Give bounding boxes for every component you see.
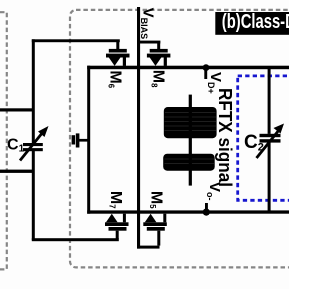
capacitor C2 (variable) [244, 124, 284, 159]
capacitor Cbp (bypass at box edge) [72, 133, 89, 147]
inductor coil upper (RF TX) [164, 107, 217, 138]
wire: bottom gate wire ->M7 gate [32, 238, 119, 241]
capacitor C1 (variable) [7, 126, 49, 161]
wire: left link upper (to TX coil box) [0, 108, 33, 111]
wire: coil axis [189, 95, 192, 186]
transistor M8 [147, 44, 171, 89]
wire: VBIAS branch to M8 gate [137, 41, 160, 44]
wire: C2 branch lower [268, 143, 271, 211]
wire: Vo- rail [87, 210, 289, 213]
outer dashed enclosure (PA chip box) [70, 10, 306, 268]
wire: VD+ rail [87, 66, 289, 70]
wire: left link lower (to TX coil box) [0, 170, 33, 173]
node Vo- [203, 209, 210, 216]
blue dashed box (matching network, cut off at right) [238, 76, 308, 200]
inductor coil lower (RF TX) [163, 154, 215, 171]
wire: top gate wire C1->M6 gate [32, 39, 120, 42]
wire: M5 gate wire [137, 246, 160, 249]
node VD+ [203, 64, 210, 71]
wire: C2 branch upper [268, 69, 271, 134]
title box (b)Class-D [215, 12, 289, 35]
wire: C1 lower vertical [32, 151, 35, 240]
svg-text:(b)Class-D: (b)Class-D [222, 11, 289, 33]
svg-text:RFTX signal: RFTX signal [215, 88, 235, 187]
transistor M6 [106, 42, 130, 89]
transistor M5 [143, 191, 167, 246]
transistor M7 [105, 191, 129, 239]
left dashed enclosure (TX coil box, cut off at left) [0, 12, 7, 269]
wire: left drop line [87, 66, 90, 214]
wire: C1 upper vertical [32, 39, 35, 143]
wire: VBIAS vertical line [137, 7, 140, 249]
